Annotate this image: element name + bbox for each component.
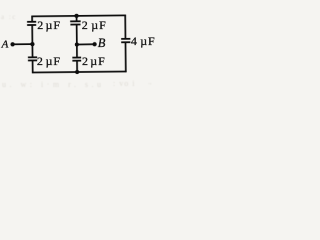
svg-text:2: 2 [82,54,88,68]
junction dot middle branch bottom [75,70,79,74]
svg-text:2: 2 [82,18,88,32]
svg-text:µF: µF [140,34,155,48]
capacitor C1 plates (top-left 2 uF) [27,21,36,23]
background [0,0,199,91]
wire middle branch lower segment [76,61,78,72]
svg-text:a :c: a :c [1,13,17,21]
svg-text:: vo i: : vo i [113,79,135,88]
wire top [31,14,125,17]
svg-text:A: A [1,38,9,50]
node B terminal dot [92,42,96,46]
capacitor C4 plates (bottom-middle 2 uF) [72,57,81,59]
svg-text:µF: µF [46,54,61,68]
junction dot left branch at A wire [30,42,34,46]
svg-text:4: 4 [131,34,137,48]
svg-text:2: 2 [37,54,43,68]
faint scan noise along bottom [1,13,152,89]
svg-text:µF: µF [46,18,61,32]
wire left branch middle segment [31,25,33,57]
svg-text:µF: µF [90,54,105,68]
wire right branch upper segment [124,15,126,39]
capacitor C2 plates (top-middle 2 uF) [70,20,80,22]
wire bottom [32,71,126,74]
wire left branch lower segment [32,60,34,73]
capacitor C5 plates (right 4 uF) [121,38,130,40]
wire right branch lower segment [124,42,126,72]
wire from node A [13,43,33,45]
node A terminal dot [10,42,14,46]
wire left branch upper segment [31,16,33,22]
wire middle branch upper segment [76,16,78,21]
wire middle branch middle segment [76,25,78,58]
svg-text:B: B [98,36,106,50]
svg-text:.,: ., [148,78,152,86]
svg-text:u. w: i·m r. s.u: u. w: i·m r. s.u [2,80,104,89]
svg-text:2: 2 [37,18,43,32]
junction dot middle branch top [74,14,78,18]
junction dot middle branch at B wire [75,42,79,46]
svg-text:µF: µF [91,18,106,32]
capacitor C3 plates (bottom-left 2 uF) [28,56,37,58]
wire to node B [77,43,95,45]
